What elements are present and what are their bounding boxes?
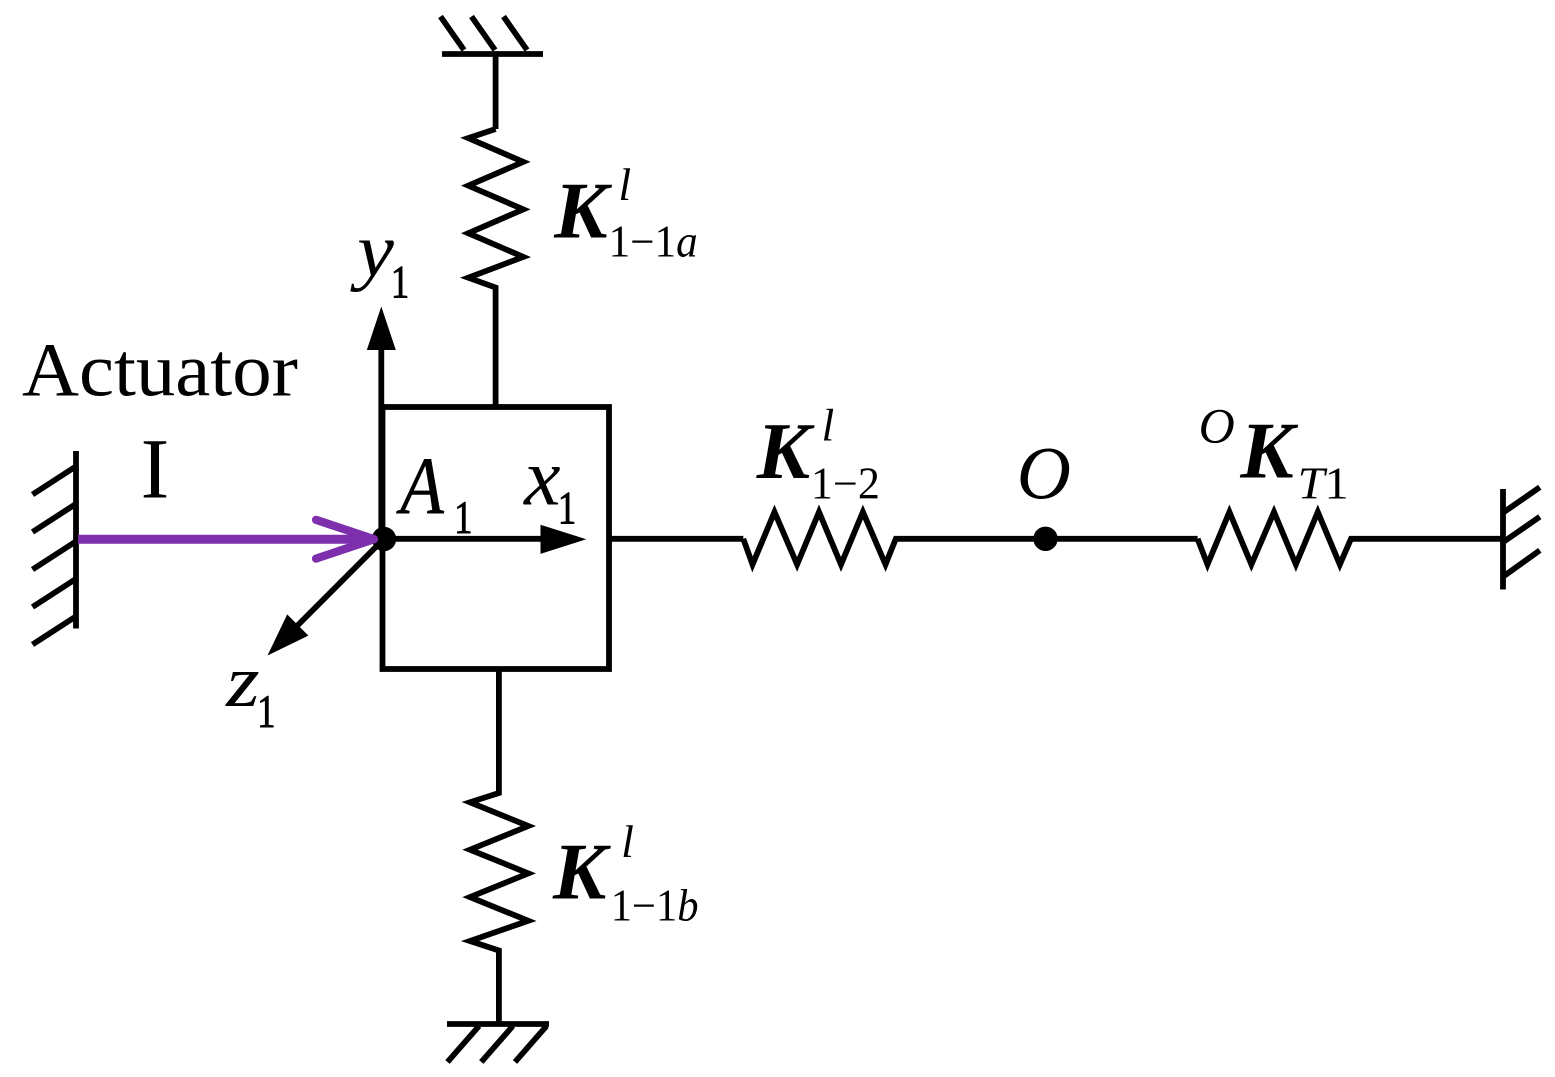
svg-text:T1: T1	[1298, 459, 1349, 509]
svg-text:I: I	[141, 421, 170, 517]
svg-text:1: 1	[558, 482, 576, 534]
svg-text:K: K	[553, 167, 612, 255]
svg-text:z: z	[225, 642, 259, 723]
svg-text:x: x	[523, 431, 560, 522]
svg-text:1: 1	[391, 256, 409, 308]
svg-text:O: O	[1199, 397, 1235, 453]
svg-text:K: K	[1239, 407, 1298, 495]
svg-text:K: K	[756, 408, 815, 496]
svg-text:Actuator: Actuator	[22, 328, 298, 412]
svg-text:1: 1	[257, 686, 275, 738]
svg-text:A: A	[396, 440, 445, 531]
svg-text:1−2: 1−2	[811, 458, 880, 509]
svg-text:1−1a: 1−1a	[609, 217, 698, 267]
svg-text:y: y	[350, 208, 395, 292]
svg-text:1: 1	[454, 492, 472, 544]
svg-text:K: K	[552, 829, 611, 917]
svg-text:1−1b: 1−1b	[611, 881, 699, 930]
svg-text:l: l	[618, 159, 631, 210]
svg-text:O: O	[1017, 433, 1071, 516]
svg-text:l: l	[621, 816, 634, 867]
svg-text:l: l	[822, 400, 835, 451]
